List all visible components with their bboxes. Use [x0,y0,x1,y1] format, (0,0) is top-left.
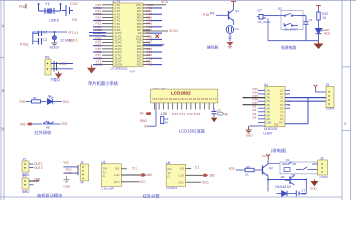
svg-text:4C: 4C [280,99,283,103]
wire (reset button to ground) [53,40,55,43]
svg-text:3: 3 [344,122,346,126]
wire (Q1 emitter to buzzer) [233,21,235,25]
wire (U1 left pin 18) [102,57,113,59]
wire (junction down) [305,180,307,194]
svg-text:P7.LI: P7.LI [69,30,78,35]
svg-text:VCC: VCC [139,180,146,184]
svg-text:P31(: P31( [20,42,29,47]
wire (right blue net, row 14) [150,45,162,47]
svg-text:4.7K: 4.7K [66,171,72,175]
port arrow (U5 out2) [141,173,146,176]
wire (buzzer base) [216,14,229,16]
module U6 body (4-pin block 2) [166,164,185,186]
wire (right blue net, row 18) [150,57,162,59]
wire (LCD VO vertical) [155,103,157,126]
svg-text:5.1: 5.1 [133,166,138,170]
wire (motor header pin2) [63,172,78,174]
wire (U4 left pin 3) [243,97,266,99]
svg-text:C3: C3 [43,38,47,42]
svg-text:P40 P41 P42 P43: P40 P41 P42 P43 [172,112,200,116]
capacitor C3 (reset lower) [33,38,42,45]
svg-text:o2: o2 [287,103,291,107]
svg-text:R6: R6 [281,175,285,179]
svg-text:P1: P1 [23,158,27,162]
svg-text:IR2: IR2 [20,123,25,127]
svg-text:RE: RE [46,126,50,130]
diode D2 (flyback) [277,191,297,196]
svg-text:CON2.5: CON2.5 [166,186,177,190]
svg-text:8B: 8B [267,113,270,117]
svg-text:2C: 2C [280,92,283,96]
wire (jack gnd down) [267,18,269,41]
wire (U1 right pin 36) [143,16,150,18]
node (reset top junction) [53,31,55,33]
wire (U1 left pin 15) [102,48,113,50]
wire (U1 left pin 3) [102,10,113,12]
svg-text:1B: 1B [267,89,270,93]
wire (connector pin 2) [51,68,73,70]
svg-text:Vcc: Vcc [63,160,69,164]
svg-text:5C: 5C [280,103,283,107]
power symbol GND (red down arrow) [56,72,61,78]
wire (buzzer to ground) [229,33,231,41]
wire (R1 to D1) [41,101,47,103]
svg-text:1:55: 1:55 [161,112,167,116]
wire (U1 left pin 9) [102,29,113,31]
wire (U1 right pin 40) [143,4,166,6]
wire (U1 right pin 28) [143,42,150,44]
svg-text:Y1: Y1 [45,1,51,6]
svg-text:电源电路: 电源电路 [281,45,296,50]
wire (D1 right) [53,101,62,103]
wire (IR row2 left) [32,123,42,125]
wire (Q2 collector to VCC) [267,161,269,165]
wire (U1 right pin 30) [143,35,150,37]
svg-text:VCC: VCC [59,62,67,66]
wire (U4 left pin 5) [243,104,266,106]
ground (LCD cap, brown) [211,118,217,123]
wire (relay to J6 pin2) [312,169,319,171]
wire (cap to bottom rail) [305,24,307,41]
wire (U1 right pin 23) [143,57,150,59]
svg-text:Q3: Q3 [292,173,296,177]
svg-text:10C: 10C [279,121,284,125]
wire (jack to switch) [267,15,278,17]
wire (U6 vcc) [186,181,202,183]
port arrow right (LCD K pin) [218,112,224,115]
transistor Q1 (NPN buzzer driver) [229,10,234,21]
wire (Q1 collector to VCC) [233,6,235,11]
switch S2 (box with contacts) [281,11,303,30]
wire (U4 right pin 3) [285,97,326,99]
svg-text:GND: GND [96,63,104,67]
connector J6 (relay output) [318,160,328,175]
svg-text:VV: VV [72,17,78,22]
wire (right blue net, row 12) [150,38,162,40]
wire (motor header vertical bar) [77,165,79,175]
ground (buzzer, red) [227,42,234,48]
svg-text:40-P: 40-P [130,69,136,73]
wire (IR row2 right) [54,123,61,125]
wire (node down to cap) [305,16,307,22]
svg-text:GND: GND [310,187,318,191]
wire (right blue net, row 2) [150,7,162,9]
svg-text:蜂鸣器: 蜂鸣器 [207,45,218,50]
crystal Y1 [45,8,54,14]
svg-text:Q1: Q1 [235,9,239,13]
wire (U1 right pin 25) [143,51,150,53]
wire (U4 right pin 6) [285,107,290,109]
transistor Q2 (relay driver NPN) [263,164,269,176]
wire (right blue net, row 6) [150,20,162,22]
wire (U1 right pin 29) [143,38,150,40]
svg-text:o1B: o1B [146,173,152,177]
ground (power circuit, brown) [314,41,324,49]
connector P1 (2-pin, bottom-left upper) [22,161,29,172]
buzzer LS1 [226,26,234,34]
wire (U4 right pin 2) [285,93,290,95]
wire (blue bus left of U1, lower) [89,35,106,37]
reset button S1 (circle) [52,36,56,40]
wire (LED to ground) [318,34,320,44]
svg-text:单片机最小系统: 单片机最小系统 [88,80,119,87]
wire (U4 gnd row) [250,125,265,127]
svg-text:OUT2: OUT2 [34,166,43,170]
svg-text:P15: P15 [203,13,209,17]
svg-text:红外接收: 红外接收 [35,129,53,136]
wire (right blue net, row 16) [150,51,162,53]
wire (left blue net, row 4) [93,13,102,15]
svg-text:A: A [2,24,5,28]
transistor Q3 (second driver) [285,176,295,186]
wire (U1 left pin 16) [102,51,113,53]
IR receiver Q3 (photo) [43,122,54,124]
svg-text:o2B: o2B [209,174,215,178]
svg-text:P20: P20 [20,100,26,104]
ground (motor, gray outline) [63,176,69,183]
wire (U6 out1) [186,167,192,169]
wire (U1 right pin 39) [143,7,150,9]
wire (right blue net, row 4) [150,13,162,15]
svg-text:V0: V0 [144,124,148,128]
wire (U1 right pin 31) [143,32,150,34]
svg-text:B: B [2,89,5,93]
wire (U1 left pin 6) [102,20,113,22]
wire (U1 left pin 14) [102,45,113,47]
svg-text:G: G [168,175,170,179]
svg-text:1.2U: 1.2U [114,173,120,177]
svg-text:R1: R1 [33,96,37,100]
wire (U1 right pin 24) [143,54,150,56]
svg-text:Q2: Q2 [269,166,273,170]
capacitor C5 (LCD backlight) [212,108,217,117]
resistor R1 (IR row1) [32,100,41,103]
resistor R3 (LCD contrast) [161,117,164,124]
svg-text:电机驱动模块: 电机驱动模块 [37,192,63,199]
svg-text:3B: 3B [267,96,270,100]
wire (left blue net, row 16) [93,51,102,53]
svg-text:4P: 4P [80,181,84,185]
ground (U1 pin 20, red) [88,65,95,73]
wire (IR row1 left) [26,101,32,103]
port arrow (U6 out2) [203,174,208,177]
power symbol VCC (buzzer top) [231,2,236,6]
svg-text:2.5mm2P: 2.5mm2P [101,187,114,191]
connector J2 (4-pin motor) [80,164,88,181]
capacitor C6 (filter) [304,22,309,24]
wire (crystal right vertical) [60,4,62,11]
wire (left blue net, row 12) [93,38,102,40]
capacitor C1 (right of crystal) [62,5,73,16]
wire (U1 right pin 33) [143,26,150,28]
svg-text:1K: 1K [322,16,327,20]
svg-text:104: 104 [301,192,306,196]
wire (U4 feedback vertical) [307,98,309,124]
ic U4 body (driver) [265,86,285,127]
capacitor C2 (reset upper) [33,31,42,36]
wire (U1 right pin 38) [143,10,150,12]
svg-text:电机2: 电机2 [22,188,30,193]
wire (resistor to LED) [318,20,320,29]
wire (blue bus left of U1, upper) [89,32,106,34]
svg-text:J5: J5 [326,83,330,87]
relay K1 (box) [280,162,318,174]
wire (P2 pin1, bold) [29,180,39,182]
port arrow (IR row2) [27,123,32,126]
svg-text:C2: C2 [43,31,47,35]
svg-text:7C: 7C [280,110,283,114]
DC power jack J4 [257,15,267,20]
wire (relay coil row) [268,163,280,165]
svg-text:VCC1: VCC1 [169,29,178,33]
capacitor C7 (relay snubber) [296,191,306,197]
LED D1 (IR emit) [48,96,54,104]
svg-text:1N4148 D2: 1N4148 D2 [275,185,291,189]
wire (U1 left pin 12) [102,38,113,40]
ground (reset) [51,43,57,46]
svg-text:G: G [103,174,105,178]
wire (U4 right pin 1) [285,90,290,92]
module U5 body (4-pin block 1) [101,164,121,187]
P2 pin dots [24,180,26,185]
wire (U1 right pin 34) [143,23,150,25]
wire (right blue net, row 20) [150,64,162,66]
svg-text:VCC: VCC [202,181,209,185]
svg-text:4B: 4B [267,99,270,103]
no-connect cross (U1 EA) [156,35,160,39]
svg-text:LCD1602: LCD1602 [171,91,191,96]
wire (U1 left pin 10) [102,32,113,34]
wire (left blue net, row 6) [93,20,102,22]
svg-text:6B: 6B [267,106,270,110]
wire (VCC to resistor) [318,9,320,12]
svg-text:U1 AT89C51: U1 AT89C51 [110,66,128,70]
wire (left blue net, row 18) [93,57,102,59]
svg-text:P20: P20 [147,63,153,67]
wire (R5 to Q2 base) [254,169,263,171]
wire (U1 P0.7 long blue) [143,44,164,46]
connector J5 (4-pin, right) [326,86,334,107]
svg-text:C: C [2,128,5,132]
wire (crystal left vertical) [38,4,40,11]
svg-text:U6: U6 [166,161,170,165]
relay K1 contacts [282,162,312,172]
svg-text:GND: GND [246,133,254,137]
svg-text:U4: U4 [264,83,268,87]
wire (reset left vertical) [32,32,34,45]
svg-text:1K: 1K [165,120,169,124]
LED D4 (power indicator) [316,29,324,34]
wire (U4 left pin 1) [258,90,265,92]
svg-text:VCC: VCC [178,180,184,184]
svg-text:P2: P2 [23,175,27,179]
wire (Q2 emitter down) [267,176,269,192]
wire (motor header pin1) [63,166,78,168]
svg-text:R5: R5 [246,165,250,169]
wire (bottom rail) [268,40,319,42]
J5 pin dots [328,91,329,104]
wire (U1 left pin 17) [102,54,113,56]
power symbol VCC (LED branch) [316,6,321,10]
svg-text:1NB: 1NB [34,178,40,182]
wire (connector pin 1) [51,63,73,65]
wire (relay to J6 pin1) [312,163,319,165]
svg-text:D1: D1 [48,94,52,98]
svg-text:C6: C6 [309,18,313,22]
svg-text:RESET: RESET [50,46,60,50]
wire (U4 left pin 9) [258,118,265,120]
wire (U4 right pin 5) [285,104,290,106]
svg-text:DC_005A: DC_005A [258,20,271,24]
svg-text:P6: P6 [45,56,49,60]
connector P3 (download, 2-pin) [45,59,51,75]
wire (U1 right pin 26) [143,48,150,50]
wire (P1 pin2) [29,166,34,168]
J2 pin dots [82,166,83,179]
svg-text:4b: 4b [140,112,144,116]
wire (left blue net, row 14) [93,45,102,47]
wire (VCC to J5 pin1) [315,90,317,92]
svg-text:GND: GND [63,185,71,189]
svg-text:4b: 4b [225,112,229,116]
svg-text:P22: P22 [229,167,235,171]
port arrow left (LCD RS) [145,112,151,115]
svg-text:5.1: 5.1 [195,165,200,169]
wire (U1 right pin 21) [143,64,150,66]
svg-text:3C: 3C [280,96,283,100]
power symbol VCC (relay) [266,154,270,161]
wire (crystal bottom horizontal) [39,10,61,12]
svg-text:RW1: RW1 [140,119,147,123]
svg-text:VSS VDD VO RS RW E D0 D1 D2 D3: VSS VDD VO RS RW E D0 D1 D2 D3 D4 D5 D6 … [152,97,217,101]
svg-text:J6: J6 [320,157,324,161]
wire (relay input) [236,169,245,171]
svg-text:9B: 9B [267,117,270,121]
wire (U4 left pin 6) [258,107,265,109]
svg-text:U-B07: U-B07 [263,132,272,136]
wire (U1 ALE extended) [143,30,168,32]
wire (U1 left pin 20) [102,64,113,66]
wire (U1 left pin 19) [102,60,113,62]
ground (relay, brown) [310,180,318,187]
lcd module U2 body [151,89,218,103]
net label P3.0 (top-left) [19,4,27,10]
wire (U5 out1) [121,168,127,170]
lcd pin stubs (14x) [155,103,214,110]
svg-text:SW-DPDT: SW-DPDT [284,28,298,32]
resistor R12 (LED series) [317,12,320,20]
svg-text:4B0.1: 4B0.1 [69,39,78,43]
svg-text:U5: U5 [101,160,105,164]
wire (U4 feedback horizontal) [285,123,308,125]
wire (U4 left pin 4) [258,100,265,102]
svg-text:8C: 8C [280,113,283,117]
svg-text:10B: 10B [267,121,272,125]
svg-text:D4: D4 [253,115,257,119]
svg-text:DQ: DQ [274,123,279,127]
wire (U6 out2) [186,174,204,176]
wire (U4 gnd short) [250,125,252,127]
svg-text:VCC: VCC [262,154,268,158]
svg-text:5V1: 5V1 [63,100,69,104]
svg-text:RED: RED [324,31,331,35]
svg-text:CON4: CON4 [326,107,335,111]
wire (U1 right pin 22) [143,60,150,62]
wire (U4 right pin 4) [285,100,326,102]
svg-text:7B: 7B [267,110,270,114]
svg-text:5B: 5B [267,103,270,107]
wire (U1 right pin 27) [143,45,150,47]
wire (U1 left pin 13) [102,42,113,44]
wire (U4 left pin 10) [258,122,265,124]
node (rail junction) [267,179,269,181]
svg-text:VCC: VCC [114,180,120,184]
wire (left blue net, row 20) [93,64,102,66]
svg-text:LCD1602液晶: LCD1602液晶 [179,128,205,135]
node (crystal right junction) [60,3,62,5]
svg-text:红外对管: 红外对管 [143,192,160,199]
wire (U1 left pin 7) [102,23,113,25]
wire (left blue net, row 2) [93,7,102,9]
capacitor C4 (across download pins) [54,61,57,72]
wire (switch out to cap node) [298,15,306,17]
wire (U1 right pin 35) [143,20,150,22]
svg-text:ULN2003: ULN2003 [264,127,278,131]
wire (right blue net, row 10) [150,32,162,34]
power symbol VCC (J5, red Y) [314,85,318,90]
svg-text:K1: K1 [286,158,290,162]
wire (P1 pin1) [29,163,34,165]
wire (U4 left pin 2) [258,93,265,95]
svg-text:1K: 1K [245,173,249,177]
svg-text:CON3: CON3 [320,175,329,179]
wire (to reset button top) [53,32,55,36]
wire (U4 left pin 7) [258,111,265,113]
svg-text:6C: 6C [280,106,283,110]
wire (U4 left pin 8) [258,114,265,116]
svg-text:IN2: IN2 [180,167,185,171]
svg-text:VCC: VCC [161,0,169,4]
svg-text:(继电器): (继电器) [271,147,287,154]
svg-text:C10: C10 [70,1,78,6]
wire (U5 out2) [121,174,141,176]
svg-text:P20: P20 [137,63,142,67]
wire (U5 vcc) [121,181,139,183]
wire (right blue net, row 8) [150,26,162,28]
wire (U1 left pin 11) [102,35,113,37]
node (crystal left junction) [38,3,40,5]
wire (U1 right pin 32) [143,29,150,31]
